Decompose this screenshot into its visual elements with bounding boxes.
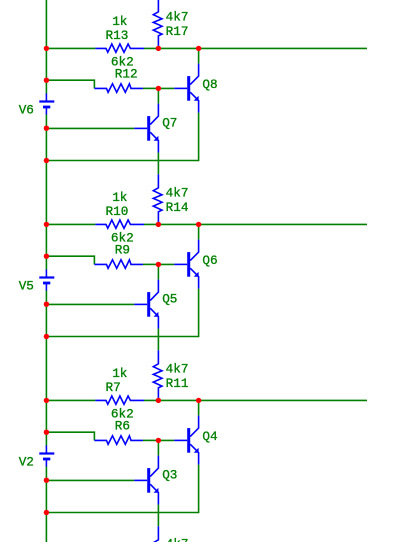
svg-text:1k: 1k (112, 190, 127, 205)
wire rail segment left (46, 47, 95, 49)
wire node to Q3 collector (157, 440, 159, 455)
wire node to Q6 base (158, 263, 174, 265)
wire node to Q5 collector (157, 264, 159, 279)
transistor Q4 (174, 416, 198, 465)
battery V2 lead top (45, 446, 47, 454)
battery V5 plate short (43, 282, 50, 285)
transistor Q8 (174, 64, 198, 113)
wire rail to Q4 collector (198, 400, 200, 415)
svg-text:Q7: Q7 (162, 115, 177, 130)
junction R9 / Q6 base / Q5 collector (156, 262, 161, 267)
resistor R17 4k7 vertical (153, 0, 162, 48)
wire R12 to node (143, 87, 158, 89)
wire left vertical rail (45, 0, 47, 542)
svg-text:Q6: Q6 (202, 253, 217, 268)
resistor R6 6k2 horizontal (94, 436, 143, 445)
wire left rail to Q3 base (46, 479, 134, 481)
junction left rail / Q5 base (44, 302, 49, 307)
wire node to Q7 collector (157, 88, 159, 103)
svg-text:1k: 1k (112, 14, 127, 29)
wire rail segment left (46, 223, 95, 225)
svg-text:R11: R11 (166, 376, 189, 391)
svg-text:Q8: Q8 (202, 77, 217, 92)
resistor (next stage) 4k7 partial lead (153, 526, 158, 542)
svg-text:R17: R17 (166, 24, 189, 39)
resistor R7 1k horizontal (95, 396, 144, 404)
wire rail to Q8 collector (198, 48, 200, 63)
transistor Q6 (174, 240, 198, 289)
junction left rail / R10 (44, 222, 49, 227)
junction R6 / Q4 base / Q3 collector (156, 438, 161, 443)
wire Q6 emitter down and across (46, 289, 198, 337)
svg-text:R12: R12 (115, 66, 138, 81)
junction left rail / Q3 base (44, 478, 49, 483)
battery V2 plate short (43, 458, 50, 461)
wire Q3 emitter down to next stage (157, 505, 159, 527)
resistor R9 6k2 horizontal (94, 260, 143, 269)
junction rail / Q8 collector (196, 46, 201, 51)
resistor R10 1k horizontal (95, 220, 144, 228)
junction left rail / R9 feed (44, 254, 49, 259)
wire from left rail to R12 (46, 80, 94, 88)
battery V6 plate long (39, 100, 54, 102)
svg-text:R13: R13 (106, 28, 129, 43)
resistor R12 6k2 horizontal (94, 84, 143, 93)
junction left rail / R12 feed (44, 78, 49, 83)
svg-text:R7: R7 (106, 380, 121, 395)
battery V2 lead bottom (45, 459, 47, 467)
battery V6 plate short (43, 106, 50, 109)
junction left rail / emitter return (44, 158, 49, 163)
svg-text:V2: V2 (19, 454, 34, 469)
wire rail segment left (46, 399, 95, 401)
wire rail segment right (144, 47, 367, 49)
wire rail to Q6 collector (198, 224, 200, 239)
wire R6 to node (143, 439, 158, 441)
svg-text:1k: 1k (112, 366, 127, 381)
svg-text:V5: V5 (19, 278, 34, 293)
wire Q7 emitter down to next stage (157, 153, 159, 175)
resistor R13 1k horizontal (95, 44, 144, 52)
junction rail / Q4 collector (196, 398, 201, 403)
transistor Q5 (134, 280, 158, 329)
junction rail / Q6 collector (196, 222, 201, 227)
wire Q8 emitter down and across (46, 113, 198, 161)
junction left rail / Q7 base (44, 126, 49, 131)
wire node to Q8 base (158, 87, 174, 89)
svg-text:4k7: 4k7 (166, 537, 189, 542)
wire left rail to Q5 base (46, 303, 134, 305)
junction left rail / emitter return (44, 334, 49, 339)
battery V6 lead top (45, 94, 47, 102)
transistor Q3 (134, 456, 158, 505)
svg-text:V6: V6 (19, 102, 34, 117)
junction left rail / R6 feed (44, 430, 49, 435)
svg-text:R10: R10 (106, 204, 129, 219)
resistor R14 4k7 vertical (153, 174, 162, 224)
battery V5 plate long (39, 276, 54, 278)
svg-text:4k7: 4k7 (166, 185, 189, 200)
svg-text:R9: R9 (115, 242, 130, 257)
wire R9 to node (143, 263, 158, 265)
wire Q5 emitter down to next stage (157, 329, 159, 351)
wire rail segment right (144, 223, 367, 225)
svg-text:R14: R14 (166, 200, 189, 215)
svg-text:4k7: 4k7 (166, 361, 189, 376)
wire node to Q4 base (158, 439, 174, 441)
junction R13 / R17 (156, 46, 161, 51)
svg-text:R6: R6 (115, 418, 130, 433)
svg-text:Q4: Q4 (202, 429, 217, 444)
junction left rail / R13 (44, 46, 49, 51)
wire from left rail to R9 (46, 256, 94, 264)
resistor R11 4k7 vertical (153, 350, 162, 400)
junction left rail / emitter return (44, 510, 49, 515)
junction R10 / R14 (156, 222, 161, 227)
svg-text:4k7: 4k7 (166, 9, 189, 24)
wire from left rail to R6 (46, 432, 94, 440)
svg-text:Q3: Q3 (162, 467, 177, 482)
transistor Q7 (134, 104, 158, 153)
wire Q4 emitter down and across (46, 465, 198, 513)
junction R7 / R11 (156, 398, 161, 403)
wire rail segment right (144, 399, 367, 401)
battery V5 lead top (45, 270, 47, 278)
svg-text:Q5: Q5 (162, 291, 177, 306)
wire left rail to Q7 base (46, 127, 134, 129)
battery V6 lead bottom (45, 107, 47, 115)
battery V2 plate long (39, 452, 54, 454)
junction left rail / R7 (44, 398, 49, 403)
battery V5 lead bottom (45, 283, 47, 291)
junction R12 / Q8 base / Q7 collector (156, 86, 161, 91)
